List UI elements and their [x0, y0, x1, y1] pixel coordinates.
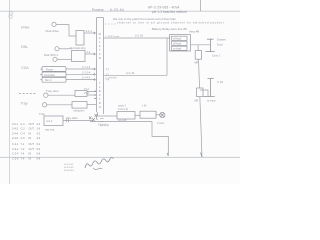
svg-text:6-2: 6-2	[37, 142, 41, 146]
svg-text:C-4: C-4	[21, 131, 26, 135]
drawer jack J6	[206, 39, 215, 52]
svg-text:AP-C-29-068 - 40VA: AP-C-29-068 - 40VA	[148, 6, 180, 10]
svg-text:IN: IN	[29, 152, 32, 156]
node cable entries tray	[94, 91, 96, 98]
relay assembly K1 outer	[170, 35, 191, 51]
wire stub above border	[199, 0, 201, 11]
svg-text:E 2-1 4-1: E 2-1 4-1	[65, 164, 75, 166]
svg-text:2-C-18: 2-C-18	[135, 34, 143, 38]
node cable entries CDA	[94, 68, 96, 81]
svg-text:2Y-4: 2Y-4	[84, 88, 89, 91]
svg-text:swing arm: swing arm	[74, 110, 85, 113]
wire S1 to cable	[87, 91, 97, 95]
wire J2 to TB2	[61, 48, 72, 50]
wire branch to C jack	[200, 90, 208, 96]
svg-text:22-2-28: 22-2-28	[118, 119, 127, 122]
mech box A1	[117, 112, 135, 119]
svg-text:2-4-4: 2-4-4	[12, 131, 19, 135]
svg-text:2, LPS RET: 2, LPS RET	[106, 78, 118, 80]
svg-text:Disk drive: Disk drive	[46, 29, 60, 33]
svg-text:6-29-64: 6-29-64	[110, 8, 124, 12]
svg-text:Process: Process	[92, 8, 104, 12]
node cable entry 2	[94, 53, 96, 55]
svg-text:2-6: 2-6	[37, 127, 41, 131]
svg-text:2-4-2: 2-4-2	[12, 127, 19, 131]
svg-text:DNL: DNL	[21, 45, 28, 49]
svg-text:Tray door: Tray door	[46, 89, 59, 93]
svg-text:per 2 (2): per 2 (2)	[100, 124, 109, 127]
svg-text:CDA: CDA	[21, 66, 29, 70]
svg-text:A-C-12: A-C-12	[126, 71, 135, 75]
wire B1 to cable	[66, 68, 97, 70]
svg-text:6-6: 6-6	[37, 152, 41, 156]
wire end tail	[167, 153, 168, 156]
label cable conductors lower	[99, 81, 102, 109]
svg-text:Drawer: Drawer	[217, 38, 226, 42]
signature scribble	[85, 157, 113, 168]
svg-text:Drive: Drive	[21, 26, 29, 30]
svg-text:IN: IN	[29, 156, 32, 160]
svg-text:C-2-2: C-2-2	[12, 147, 19, 151]
wire B3 to cable	[66, 79, 97, 81]
sheet frame bottom line	[0, 156, 240, 158]
svg-text:6-4: 6-4	[37, 147, 41, 151]
svg-text:C-1: C-1	[21, 122, 26, 126]
svg-text:OUT: OUT	[29, 147, 35, 151]
C jack J7	[204, 79, 215, 97]
svg-text:2-4-6: 2-4-6	[12, 136, 19, 140]
svg-text:C-2-4: C-2-4	[12, 152, 19, 156]
connector J4	[44, 93, 50, 97]
svg-text:IN: IN	[29, 131, 32, 135]
connector J3	[53, 57, 61, 61]
svg-text:4-4: 4-4	[37, 136, 41, 140]
svg-text:2-Y-1-4: 2-Y-1-4	[82, 66, 91, 69]
svg-text:Y-4: Y-4	[21, 152, 25, 156]
wire loop top (cable to relay assembly)	[104, 37, 171, 39]
wire J4 to switch S1	[50, 94, 76, 96]
svg-text:Assy #8: Assy #8	[189, 30, 199, 34]
svg-text:C-2: C-2	[21, 127, 26, 131]
svg-text:2Y-6: 2Y-6	[84, 92, 89, 95]
svg-text:Y-1: Y-1	[21, 142, 25, 146]
svg-text:Tray: Tray	[39, 112, 45, 116]
wire S2 to cable	[87, 103, 97, 105]
svg-text:Tray: Tray	[21, 102, 28, 106]
wire M1 to splice	[63, 119, 93, 121]
svg-text:2-4-2 (-2): 2-4-2 (-2)	[118, 108, 128, 111]
svg-text:per 1-2 beaches method: per 1-2 beaches method	[152, 10, 187, 14]
separator dashes	[19, 93, 36, 95]
svg-text:2, LPS 2 conn: 2, LPS 2 conn	[106, 36, 121, 38]
svg-text:2-4: 2-4	[37, 122, 41, 126]
motor M1	[44, 116, 63, 126]
module B1 (Power)	[42, 67, 66, 72]
svg-text:drive cable: drive cable	[66, 117, 78, 120]
cable W1 outline	[97, 18, 104, 114]
svg-text:on hook: on hook	[173, 49, 182, 51]
svg-text:2-4-1: 2-4-1	[12, 122, 19, 126]
switch S2	[72, 102, 87, 109]
svg-text:mot 2: mot 2	[46, 120, 53, 123]
relay contact row 1	[172, 36, 188, 40]
signature descender loop	[93, 168, 102, 170]
wire loop right edge	[166, 38, 168, 75]
svg-text:E 2-4 4-4: E 2-4 4-4	[65, 170, 75, 172]
mech box A2	[140, 111, 156, 118]
svg-text:2-Y-4-5: 2-Y-4-5	[82, 77, 91, 80]
wire end tail at border	[201, 153, 202, 158]
wire lower run	[90, 122, 168, 156]
svg-text:E 2-2 4-2: E 2-2 4-2	[65, 167, 75, 169]
svg-text:MR: MR	[195, 100, 199, 103]
svg-text:IN: IN	[29, 136, 32, 140]
switch S1	[75, 91, 87, 97]
module B2	[42, 72, 66, 77]
svg-text:6-8: 6-8	[37, 156, 41, 160]
terminal board TB1	[76, 31, 84, 46]
relay contact row 2	[172, 41, 188, 45]
svg-text:R: R	[99, 56, 101, 60]
wire TB1 to cable W1	[84, 32, 97, 34]
leader dashed to note	[105, 23, 116, 25]
svg-text:Y-2: Y-2	[21, 147, 25, 151]
relay contact row 3	[172, 46, 188, 50]
connector J1 (disk drive jack)	[52, 22, 59, 26]
svg-text:to temp: to temp	[207, 100, 216, 103]
svg-text:C-2-6: C-2-6	[12, 156, 19, 160]
svg-text:L 42: L 42	[142, 105, 147, 108]
svg-text:OUT: OUT	[29, 127, 35, 131]
wire J3 to TB2	[61, 58, 72, 60]
parts table rows	[12, 122, 41, 161]
svg-text:2 conn: 2 conn	[157, 122, 165, 125]
svg-text:Conn 2: Conn 2	[212, 55, 221, 58]
inline device MR2	[197, 88, 203, 97]
svg-text:OUT: OUT	[29, 122, 35, 126]
wire long vertical to bottom border	[198, 45, 202, 157]
svg-text:Controller: Controller	[44, 74, 55, 77]
svg-text:off hook: off hook	[173, 39, 182, 41]
svg-text:2-2: 2-2	[87, 50, 91, 54]
title block mini table	[65, 164, 75, 172]
svg-text:2-Y-2-4: 2-Y-2-4	[82, 71, 91, 74]
binder hole mark	[9, 12, 12, 15]
terminal board TB2	[72, 51, 86, 62]
splice connector marks	[67, 114, 98, 122]
splice X1	[160, 112, 165, 117]
module B3	[42, 77, 66, 82]
wire J1 to terminal board TB1	[59, 25, 76, 36]
svg-text:C-2-1: C-2-1	[12, 142, 19, 146]
svg-text:Disk SP2-1: Disk SP2-1	[44, 53, 58, 57]
sheet frame left line	[9, 0, 11, 184]
svg-text:Run 4: Run 4	[45, 79, 52, 82]
wire loop bottom (return to cable)	[104, 74, 168, 76]
svg-text:C-6: C-6	[21, 136, 26, 140]
connector J5	[42, 103, 48, 107]
svg-text:tray mot: tray mot	[45, 128, 55, 132]
svg-text:- Battery Relay Assy line #8: - Battery Relay Assy line #8	[150, 27, 187, 31]
connector J2 (disk SP jack)	[55, 47, 61, 51]
svg-text:OUT: OUT	[29, 142, 35, 146]
wire A2 to splice X1	[156, 114, 161, 116]
wire TB2 to cable W1	[85, 53, 97, 55]
svg-text:4-2: 4-2	[37, 131, 41, 135]
wire A1 to A2	[135, 114, 140, 116]
svg-text:4-C-1: 4-C-1	[86, 29, 93, 33]
svg-text:Terminal strip: Terminal strip	[70, 46, 86, 50]
wire CDA box tails	[40, 69, 42, 80]
svg-text:Power: Power	[46, 68, 53, 71]
wire B2 to cable	[66, 73, 97, 75]
node cable entry 1	[94, 32, 96, 34]
svg-text:Y-6: Y-6	[21, 156, 25, 160]
wire motor run to boxes	[97, 115, 117, 117]
label cable conductors upper	[99, 32, 102, 60]
svg-text:Door: Door	[217, 43, 223, 47]
sheet frame top line	[0, 10, 240, 12]
svg-text:channel to line in all ground: channel to line in all ground channel (i…	[117, 21, 224, 25]
svg-text:off hook: off hook	[173, 44, 182, 46]
cable bottom scribble	[89, 112, 104, 122]
svg-text:C 18: C 18	[217, 80, 223, 84]
inline device MR1	[195, 51, 201, 60]
svg-text:MR: MR	[195, 62, 199, 65]
wire relay output to drawer jack	[191, 44, 211, 46]
wire J5 to switch S2	[48, 104, 72, 106]
